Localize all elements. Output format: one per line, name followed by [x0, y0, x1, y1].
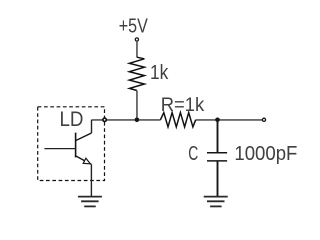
port circle on module boundary — [103, 118, 106, 121]
resistor R1 1k (vertical) — [129, 57, 144, 90]
terminal +5V — [135, 38, 138, 41]
svg-text:C: C — [188, 143, 198, 165]
wire emitter to ground — [90, 164, 92, 196]
wire capacitor to ground — [217, 162, 219, 197]
output terminal — [262, 118, 265, 121]
svg-text:LD: LD — [60, 108, 84, 131]
node junction dot at R1/R2 — [135, 118, 140, 123]
transistor Q1 collector diagonal — [76, 133, 92, 141]
ground (left, below transistor) — [78, 197, 102, 207]
wire +5V to R1 — [136, 42, 138, 58]
wire R1 to node — [136, 91, 138, 120]
dashed enclosure (LD module) — [38, 107, 105, 181]
wire R2 to output terminal — [196, 119, 262, 121]
svg-text:+5V: +5V — [119, 16, 149, 38]
node junction dot at capacitor tap — [215, 118, 220, 123]
transistor Q1 emitter diagonal — [76, 156, 92, 165]
svg-text:R=1k: R=1k — [161, 94, 205, 116]
wire node to capacitor — [217, 120, 219, 152]
wire collector to R2 (horizontal) — [92, 119, 161, 121]
emitter arrow — [83, 158, 90, 164]
capacitor C bottom plate — [207, 160, 227, 162]
ground (right, below capacitor) — [204, 197, 228, 207]
capacitor C top plate — [207, 152, 227, 154]
wire collector up to node — [91, 120, 93, 133]
resistor R2 R=1k (horizontal) — [160, 113, 195, 127]
svg-text:1k: 1k — [150, 62, 169, 84]
svg-text:1000pF: 1000pF — [234, 143, 297, 165]
transistor Q1 base bar — [75, 133, 77, 158]
transistor Q1 base lead — [44, 148, 75, 150]
